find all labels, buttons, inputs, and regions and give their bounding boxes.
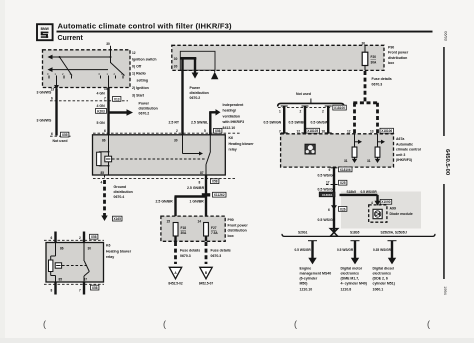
svg-text:15: 15 <box>167 220 171 224</box>
svg-text:K6: K6 <box>106 244 111 248</box>
svg-text:Power: Power <box>190 86 201 90</box>
svg-text:7: 7 <box>104 97 106 101</box>
svg-text:F18: F18 <box>181 226 187 230</box>
wire: ignition output right (4 GN / 5 GN) <box>108 79 110 89</box>
wire: dashed leg to pin 12 <box>353 103 356 134</box>
note power distribution 0670.2 (left) <box>139 102 158 116</box>
relay detail: connector dashed line bottom <box>44 283 104 285</box>
connector X11262 label <box>213 192 227 197</box>
note P90 front power distribution box <box>228 218 249 238</box>
note fuse details 0670.3 (left) <box>180 249 200 259</box>
BMW 5-series logo <box>37 24 53 40</box>
title underline rule <box>57 31 433 33</box>
svg-text:Heating blower: Heating blower <box>106 249 132 253</box>
svg-text:BMW: BMW <box>41 27 50 31</box>
svg-text:17: 17 <box>326 181 330 185</box>
wire: unused pin 1 <box>281 106 288 134</box>
detail switch arm <box>84 243 89 283</box>
svg-text:10: 10 <box>322 129 326 133</box>
svg-text:X58: X58 <box>212 180 218 184</box>
svg-text:4 GN: 4 GN <box>97 104 106 108</box>
svg-text:0.5 WS/GR: 0.5 WS/GR <box>318 173 336 177</box>
wire: fuse F18 output dashed <box>174 236 176 264</box>
svg-text:2: 2 <box>322 110 324 114</box>
svg-text:7: 7 <box>79 289 81 293</box>
svg-text:0670.3: 0670.3 <box>372 83 383 87</box>
wire: unit output 0.5 WS/GR main column <box>333 167 335 233</box>
svg-text:Digital diesel: Digital diesel <box>373 266 395 270</box>
inline connector X11262 bar <box>202 193 210 196</box>
svg-text:Independent: Independent <box>223 103 245 107</box>
svg-text:Heating blower: Heating blower <box>229 142 255 146</box>
svg-text:F20: F20 <box>371 55 377 59</box>
svg-text:(DME M1.7,: (DME M1.7, <box>341 276 360 280</box>
svg-text:0.5 WS/GR: 0.5 WS/GR <box>337 248 354 252</box>
note fuse details 0670.3 (top) <box>372 77 392 87</box>
connector X18105 label <box>306 128 320 133</box>
relay detail: bottom stub 7 with X58 <box>79 282 99 295</box>
ground point X165 label <box>113 216 123 221</box>
relay detail: connector dashed line top <box>44 239 104 241</box>
svg-text:14: 14 <box>198 220 202 224</box>
svg-text:X13: X13 <box>114 97 120 101</box>
wire: 30 feed inside switch <box>110 50 112 63</box>
svg-text:6: 6 <box>328 208 330 212</box>
svg-text:0670.4: 0670.4 <box>114 195 125 199</box>
gray zone around diode module <box>341 192 421 229</box>
diode module A99 dashed box <box>369 205 387 222</box>
note fuse details 0670.3 (right) <box>211 249 231 259</box>
svg-text:K6: K6 <box>229 136 234 140</box>
fuse F27 7.5A <box>204 223 219 237</box>
svg-text:ventilation: ventilation <box>223 114 241 118</box>
wire: to independent heating (2.5 SW/BL) <box>209 109 220 135</box>
detail mechanical link dashed <box>62 265 87 267</box>
svg-text:X58: X58 <box>91 235 97 239</box>
svg-text:87: 87 <box>200 171 204 175</box>
svg-text:0670.3: 0670.3 <box>211 254 222 258</box>
wire: unused pin 2 (right) <box>325 106 332 134</box>
relay coil circuit <box>97 135 110 175</box>
svg-text:Not used: Not used <box>53 139 68 143</box>
svg-text:heating/: heating/ <box>223 109 236 113</box>
svg-text:0.5 WS/GR: 0.5 WS/GR <box>295 248 312 252</box>
svg-text:X18100: X18100 <box>334 106 345 110</box>
svg-text:P90: P90 <box>388 46 394 50</box>
ignition switch S1 dashed box <box>43 50 131 88</box>
bracket over unused wires <box>278 99 344 107</box>
wire: ignition output left (3 GN/WS) <box>51 79 59 136</box>
svg-text:X11262: X11262 <box>214 193 225 197</box>
svg-text:(DDE 2, 6: (DDE 2, 6 <box>373 276 388 280</box>
svg-text:(: ( <box>43 319 46 329</box>
svg-text:1) Radio: 1) Radio <box>132 72 146 76</box>
svg-text:P90: P90 <box>228 218 234 222</box>
svg-text:X18106: X18106 <box>340 168 351 172</box>
wire: bus feed horizontal <box>180 57 196 60</box>
svg-text:setting: setting <box>137 79 148 83</box>
connector X1090 label <box>380 199 392 204</box>
svg-text:Fuse details: Fuse details <box>211 249 231 253</box>
svg-text:S18b5: S18b5 <box>347 190 357 194</box>
svg-text:0) Off: 0) Off <box>132 65 142 69</box>
fuse box P90 dashed <box>161 216 225 241</box>
svg-text:7.5A: 7.5A <box>211 231 218 235</box>
svg-text:box: box <box>388 61 394 65</box>
wire: ground distribution dashed <box>101 175 107 221</box>
relay detail: bottom stub 8 <box>51 282 56 295</box>
svg-text:X1090: X1090 <box>381 200 390 204</box>
svg-text:box: box <box>228 234 234 238</box>
off-page triangle from power bus <box>211 70 218 79</box>
svg-text:(6-cylinder: (6-cylinder <box>300 276 318 280</box>
svg-text:S25b5/A, S25b5/J: S25b5/A, S25b5/J <box>381 231 408 235</box>
fuse F18 30A <box>173 223 187 237</box>
svg-text:30: 30 <box>174 65 178 69</box>
relay detail: top stub 6 <box>51 232 56 243</box>
svg-text:86: 86 <box>102 139 106 143</box>
ground bus bracket <box>282 234 435 237</box>
connector X26 label <box>339 207 347 212</box>
svg-text:M50): M50) <box>300 281 308 285</box>
svg-text:8452.5-02: 8452.5-02 <box>168 282 183 286</box>
svg-text:with IHKR/F3: with IHKR/F3 <box>222 120 245 124</box>
svg-text:X25: X25 <box>340 181 346 185</box>
relay coil core symbol <box>105 156 112 162</box>
svg-text:management MS40: management MS40 <box>300 271 332 275</box>
svg-text:1: 1 <box>279 110 281 114</box>
svg-text:31: 31 <box>344 159 348 163</box>
connector X55 dashes <box>50 135 72 137</box>
svg-text:distribution: distribution <box>388 56 407 60</box>
svg-text:85: 85 <box>59 278 63 282</box>
svg-text:X18081: X18081 <box>322 193 333 197</box>
svg-text:0.5 SW/BL: 0.5 SW/BL <box>289 120 307 124</box>
svg-text:4: 4 <box>371 201 373 205</box>
note digital diesel electronics <box>373 266 395 291</box>
svg-text:distribution: distribution <box>228 229 247 233</box>
svg-text:1210.8: 1210.8 <box>341 288 352 292</box>
svg-text:12: 12 <box>297 129 301 133</box>
connector X58 dashed line above relay <box>93 132 240 134</box>
svg-text:A99: A99 <box>390 207 396 211</box>
svg-text:6: 6 <box>51 236 53 240</box>
note ground distribution 0670.4 <box>114 185 133 199</box>
svg-text:8: 8 <box>51 289 53 293</box>
wire: unused pin 2 (middle) <box>302 106 309 134</box>
svg-text:85: 85 <box>101 171 105 175</box>
svg-text:2.5 SW/BL: 2.5 SW/BL <box>191 121 209 125</box>
svg-text:0.5 GN/SW: 0.5 GN/SW <box>311 120 329 124</box>
svg-text:3) Start: 3) Start <box>132 94 145 98</box>
svg-text:Fuse details: Fuse details <box>180 249 200 253</box>
connector X58 dashed line below relay <box>93 178 235 180</box>
svg-text:0670.2: 0670.2 <box>139 112 150 116</box>
svg-text:X18105: X18105 <box>307 129 318 133</box>
svg-text:distribution: distribution <box>139 107 158 111</box>
wire: fuse F27 output dashed <box>205 236 207 264</box>
svg-text:(IHKR/F3): (IHKR/F3) <box>396 158 412 162</box>
svg-text:87: 87 <box>84 278 88 282</box>
svg-text:distribution: distribution <box>190 91 209 95</box>
resistor branch 2 in unit <box>367 134 385 163</box>
svg-text:06/93: 06/93 <box>444 31 448 41</box>
splice bowtie at bus <box>330 229 337 237</box>
svg-text:12: 12 <box>347 129 351 133</box>
svg-text:electronics: electronics <box>373 271 392 275</box>
off-page triangle A <box>169 267 181 279</box>
relay K6 detail box <box>46 243 104 283</box>
svg-text:electronics: electronics <box>341 271 360 275</box>
note independent heating/ventilation <box>222 103 245 130</box>
svg-text:0.5 SW/GN: 0.5 SW/GN <box>264 120 282 124</box>
connector X18106 label bottom <box>339 167 353 172</box>
svg-text:0670.2: 0670.2 <box>190 96 201 100</box>
svg-text:Ignition switch: Ignition switch <box>132 58 157 62</box>
A99 diode module label <box>390 207 413 216</box>
svg-text:F27: F27 <box>211 226 217 230</box>
svg-text:(: ( <box>427 319 430 329</box>
svg-text:30A: 30A <box>181 231 188 235</box>
svg-text:2: 2 <box>79 236 81 240</box>
svg-text:3 GN/WS: 3 GN/WS <box>37 91 52 95</box>
svg-text:X18106: X18106 <box>381 129 392 133</box>
inline connector label X18081 <box>319 192 335 197</box>
svg-text:Automatic climate control with: Automatic climate control with filter (I… <box>58 21 233 30</box>
svg-text:Automatic: Automatic <box>396 142 413 146</box>
svg-text:K203: K203 <box>97 109 105 113</box>
svg-text:climate control: climate control <box>396 148 421 152</box>
svg-text:2) Ignition: 2) Ignition <box>132 86 149 90</box>
svg-text:30A: 30A <box>371 61 378 65</box>
svg-text:X58: X58 <box>92 286 98 290</box>
svg-text:S20b1: S20b1 <box>298 231 308 235</box>
arrow mark on main wire <box>331 205 337 209</box>
svg-text:0.5 WS/GR: 0.5 WS/GR <box>318 218 336 222</box>
svg-text:distribution: distribution <box>114 190 133 194</box>
note P90 front power distribution box (top) <box>388 46 409 66</box>
svg-text:X165: X165 <box>113 217 121 221</box>
svg-text:1 GN/BR: 1 GN/BR <box>190 200 205 204</box>
right margin rule lower <box>443 184 445 279</box>
wire: dashed leg to pin 13 <box>376 103 379 134</box>
svg-text:86: 86 <box>60 247 64 251</box>
svg-text:6450.5-00: 6450.5-00 <box>444 149 450 175</box>
wire: dashed split header <box>353 101 378 104</box>
relay K6 heating blower relay box <box>93 135 226 175</box>
connector X18100 dashed line <box>278 106 332 108</box>
svg-text:cylinder M51): cylinder M51) <box>373 281 395 285</box>
top power dashed box <box>172 45 384 70</box>
svg-text:2.5 RT: 2.5 RT <box>169 121 180 125</box>
off-page triangle B <box>200 267 212 279</box>
relay switch feed 30 <box>183 135 204 156</box>
power bus sub-box <box>180 51 215 70</box>
svg-text:12: 12 <box>132 51 136 55</box>
svg-text:8452.5-07: 8452.5-07 <box>199 282 214 286</box>
svg-text:unit 3: unit 3 <box>396 153 405 157</box>
switch contacts right row <box>99 72 124 79</box>
svg-text:1994: 1994 <box>443 286 447 294</box>
svg-text:A67a: A67a <box>396 137 404 141</box>
relay K6 label <box>229 136 255 152</box>
svg-text:30: 30 <box>174 57 178 61</box>
splice K203 label <box>96 109 107 114</box>
wire: branch to diode module <box>340 195 381 206</box>
svg-text:0.5 WS/GR: 0.5 WS/GR <box>318 188 336 192</box>
svg-text:0.5 WS/GR: 0.5 WS/GR <box>361 190 378 194</box>
diode symbol <box>373 209 382 218</box>
connector X13 label <box>113 97 121 102</box>
svg-text:X26: X26 <box>340 207 346 211</box>
svg-text:31: 31 <box>367 159 371 163</box>
svg-text:(: ( <box>294 319 297 329</box>
svg-text:X58: X58 <box>215 129 221 133</box>
svg-text:15: 15 <box>104 87 108 91</box>
connector X58 label above relay <box>214 128 222 133</box>
relay detail: top stub 2 with X58 <box>79 232 98 243</box>
note digital motor electronics <box>341 266 367 291</box>
arrow to engine management <box>308 241 317 265</box>
svg-text:1210.10: 1210.10 <box>300 288 313 292</box>
note power distribution 0670.2 (top) <box>190 86 209 100</box>
svg-text:5 GN: 5 GN <box>97 121 106 125</box>
connector X58 label below relay <box>211 179 219 184</box>
svg-text:Front power: Front power <box>388 51 409 55</box>
switch arm right <box>111 63 125 76</box>
svg-text:3 GN/WS: 3 GN/WS <box>37 119 52 123</box>
wire: relay 87 output 2.5 GN/BR <box>205 175 207 196</box>
svg-text:30: 30 <box>106 42 110 46</box>
svg-text:4: 4 <box>101 181 103 185</box>
arrow to digital diesel electronics <box>388 241 397 265</box>
svg-text:2: 2 <box>176 129 178 133</box>
arrow to power distribution <box>110 109 134 115</box>
svg-text:Current: Current <box>58 35 84 42</box>
relay detail label K6 heating blower relay <box>106 244 132 260</box>
right margin rule upper <box>443 47 445 136</box>
arrow: power distribution 0670.2 stub <box>192 58 199 79</box>
relay mechanical link dashed <box>112 158 205 160</box>
svg-text:30: 30 <box>174 139 178 143</box>
fuse F20 30A <box>362 45 377 70</box>
arrow to digital motor electronics <box>351 241 360 265</box>
detail coil core symbol <box>55 263 61 268</box>
svg-text:4- cylinder M40): 4- cylinder M40) <box>341 281 367 285</box>
page left edge shade <box>0 0 5 343</box>
wire: branch split to fuses <box>175 196 207 223</box>
svg-text:Digital motor: Digital motor <box>341 266 363 270</box>
svg-text:Engine: Engine <box>300 266 312 270</box>
connector X18100 label <box>333 105 347 110</box>
svg-text:5: 5 <box>204 129 206 133</box>
svg-text:7: 7 <box>279 129 281 133</box>
svg-text:8: 8 <box>199 181 201 185</box>
connector X18106 label top <box>380 128 394 133</box>
svg-text:6: 6 <box>51 97 53 101</box>
svg-text:2.5 GN/BR: 2.5 GN/BR <box>156 200 174 204</box>
svg-text:2.5 GN/BR: 2.5 GN/BR <box>187 186 205 190</box>
svg-text:4 GN: 4 GN <box>97 92 106 96</box>
svg-text:2: 2 <box>300 110 302 114</box>
A67a label <box>396 137 421 162</box>
resistor branch 1 in unit <box>344 134 362 163</box>
page bottom edge shade <box>0 338 474 343</box>
svg-text:Fuse details: Fuse details <box>372 77 392 81</box>
svg-text:Front power: Front power <box>228 223 249 227</box>
connector X25 label <box>339 180 347 185</box>
blower symbol in unit <box>305 144 315 154</box>
svg-text:S18b5: S18b5 <box>350 231 360 235</box>
svg-text:1060.1: 1060.1 <box>373 288 384 292</box>
A67a automatic climate control unit dashed box <box>281 134 394 167</box>
detail coil circuit <box>49 243 56 283</box>
svg-text:Not used: Not used <box>296 92 311 96</box>
svg-text:X55: X55 <box>62 133 68 137</box>
relay switch contact arm <box>206 135 211 175</box>
connector X55 label <box>61 132 69 137</box>
switch arrow upper <box>48 55 112 60</box>
svg-text:30: 30 <box>88 247 92 251</box>
svg-text:6: 6 <box>104 129 106 133</box>
svg-text:30: 30 <box>362 42 366 46</box>
switch arrow lower <box>48 67 109 72</box>
wire: terminal 30 feed into ignition switch <box>110 46 112 50</box>
connector X13 dashed line <box>50 100 128 102</box>
svg-text:Diode module: Diode module <box>390 212 413 216</box>
wire: feed to relay terminal 2 (2.5 RT) <box>181 58 183 135</box>
note engine management MS40 <box>300 266 332 291</box>
wire: fuse F20 output dashed <box>364 71 367 102</box>
svg-text:6: 6 <box>51 132 53 136</box>
svg-text:0670.3: 0670.3 <box>180 254 191 258</box>
svg-text:0.35 WS/GR: 0.35 WS/GR <box>373 248 392 252</box>
svg-text:(: ( <box>163 319 166 329</box>
svg-text:relay: relay <box>229 148 237 152</box>
svg-text:Ground: Ground <box>114 185 127 189</box>
svg-text:13: 13 <box>370 129 374 133</box>
svg-text:relay: relay <box>106 255 114 259</box>
switch contacts left row <box>47 72 72 79</box>
switch arm left <box>59 56 73 76</box>
ignition switch legend <box>132 51 157 98</box>
svg-text:Power: Power <box>139 102 150 106</box>
svg-text:8412.10: 8412.10 <box>223 126 236 130</box>
connector X25 dashes <box>326 184 338 186</box>
svg-text:9: 9 <box>329 168 331 172</box>
